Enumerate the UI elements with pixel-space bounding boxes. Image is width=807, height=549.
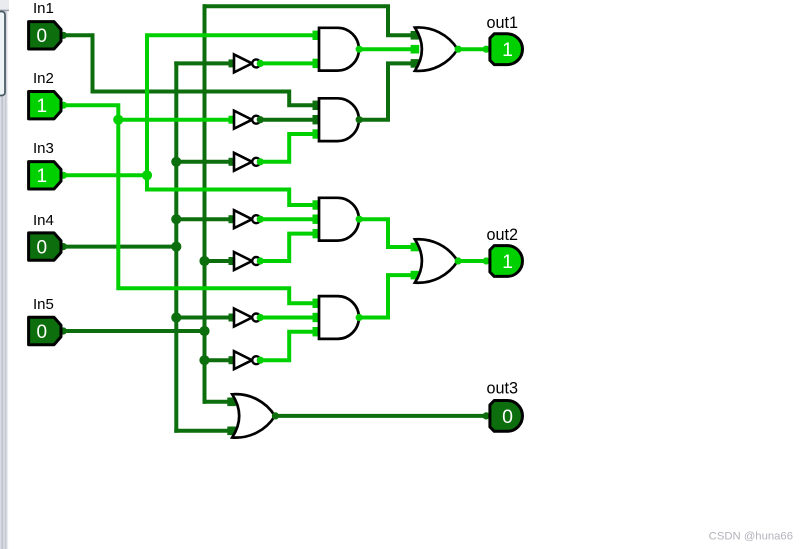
OR gate OR1 xyxy=(415,27,458,70)
inverter N2 output port xyxy=(257,116,264,123)
In4 pin port nub xyxy=(60,243,67,250)
AND gate AND1 xyxy=(319,28,359,71)
AND gate AND2 xyxy=(319,98,359,141)
svg-text:1: 1 xyxy=(37,166,48,187)
wire top run In5 bus to OR1 feed xyxy=(205,6,415,35)
wire inverter N3 output to AND2 input 3 xyxy=(260,134,319,162)
wire In5 pin to In5 bus xyxy=(60,329,205,333)
input pin In2 xyxy=(29,92,61,119)
AND gate AND4 xyxy=(319,296,359,339)
inverter N4 xyxy=(234,210,260,228)
svg-text:1: 1 xyxy=(502,251,513,273)
OR2 input 2 port xyxy=(411,271,420,280)
inverter N6 output port xyxy=(257,314,264,321)
svg-text:In5: In5 xyxy=(33,296,54,313)
AND3 input 3 port xyxy=(313,229,322,238)
wire inverter N2 output to AND2 input 2 xyxy=(260,118,319,122)
wire In2 bus to inverter N2 input xyxy=(118,118,228,122)
In3 pin port nub xyxy=(60,172,67,179)
wire AND3 output to OR2 input 1 xyxy=(359,219,415,247)
AND2 output port xyxy=(356,116,363,123)
junction In4 bus / N4 feed xyxy=(171,214,181,224)
inverter N5 input port xyxy=(229,257,237,265)
wire In4 pin to In4 bus xyxy=(60,245,176,249)
OR3 output port xyxy=(272,412,279,419)
OR gate OR2 xyxy=(415,239,458,282)
svg-text:CSDN @huna66: CSDN @huna66 xyxy=(709,531,793,543)
wire In3 pin to In3 bus xyxy=(60,173,147,177)
svg-text:out1: out1 xyxy=(487,14,519,32)
wire In4 bus to inverter N4 input xyxy=(176,217,228,221)
svg-text:1: 1 xyxy=(502,39,513,61)
svg-text:0: 0 xyxy=(502,406,513,428)
inverter N7 input port xyxy=(229,356,237,364)
output pin out3 xyxy=(490,401,523,432)
In2 pin port nub xyxy=(60,102,67,109)
out2 pin port nub xyxy=(483,257,490,264)
In1 pin port nub xyxy=(60,32,67,39)
inverter N4 output port xyxy=(257,216,264,223)
wire AND1 output to OR1 input 2 xyxy=(359,47,415,51)
AND3 input 2 port xyxy=(313,215,322,224)
inverter N2 xyxy=(234,111,260,129)
svg-text:In4: In4 xyxy=(33,212,54,229)
AND2 input 2 port xyxy=(313,115,322,124)
AND1 output port xyxy=(356,46,363,53)
In5 pin port nub xyxy=(60,327,67,334)
output pin out2 xyxy=(490,246,523,277)
inverter N7 xyxy=(234,351,260,369)
wire In5 vertical bus xyxy=(203,6,207,402)
inverter N5 xyxy=(234,252,260,270)
inverter N2 input port xyxy=(229,116,237,124)
inverter N1 input port xyxy=(229,59,237,67)
junction In5 bus / N7 feed xyxy=(199,355,209,365)
wire inverter N6 output to AND4 input 2 xyxy=(260,316,319,320)
inverter N6 xyxy=(234,309,260,327)
junction In2 bus / N2 feed xyxy=(113,115,123,125)
svg-text:1: 1 xyxy=(37,96,48,117)
inverter N1 output port xyxy=(257,60,264,67)
svg-text:out3: out3 xyxy=(487,380,519,398)
OR1 input 3 port xyxy=(411,59,420,68)
AND1 input 2 port xyxy=(313,59,322,68)
OR3 input 1 port xyxy=(227,398,236,407)
output pin out1 xyxy=(490,34,523,65)
inverter N3 xyxy=(234,153,260,171)
inverter N6 input port xyxy=(229,314,237,322)
inverter N3 input port xyxy=(229,158,237,166)
wire In1 pin to AND2 input 1 (net In1) xyxy=(60,35,319,105)
inverter N7 output port xyxy=(257,357,264,364)
wire OR3 output to out3 pin xyxy=(275,414,486,418)
wire In4 bus to inverter N6 input xyxy=(176,316,228,320)
wire In2 pin to AND4 input 1 (net In2) xyxy=(60,105,319,303)
svg-text:In2: In2 xyxy=(33,70,54,87)
OR2 input 1 port xyxy=(411,243,420,252)
inverter N5 output port xyxy=(257,257,264,264)
junction In4 bus / N6 feed xyxy=(171,312,181,322)
wire In4 vertical bus xyxy=(174,63,178,430)
wire In3 bus down to AND3 input 1 xyxy=(147,175,319,205)
input pin In4 xyxy=(29,233,61,260)
junction In4 bus / N3 feed xyxy=(171,157,181,167)
AND4 output port xyxy=(356,314,363,321)
wire In5 bus to OR3 input 1 xyxy=(205,400,232,404)
junction In4 bus / In4 pin entry xyxy=(171,242,181,252)
wire In4 bus to inverter N1 input xyxy=(176,61,228,65)
svg-text:In1: In1 xyxy=(33,0,54,17)
scrollbar track separator line xyxy=(0,9,9,11)
OR gate OR3 xyxy=(232,394,275,437)
OR2 output port xyxy=(455,257,462,264)
svg-text:out2: out2 xyxy=(487,226,519,244)
out1 pin port nub xyxy=(483,46,490,53)
AND gate AND3 xyxy=(319,198,359,241)
input pin In5 xyxy=(29,317,61,344)
left window edge strip xyxy=(0,0,9,549)
inverter N4 input port xyxy=(229,215,237,223)
scrollbar track top-left xyxy=(0,0,9,10)
AND2 input 3 port xyxy=(313,129,322,138)
OR3 input 2 port xyxy=(227,427,236,436)
input pin In1 xyxy=(29,22,61,49)
OR1 input 2 port xyxy=(411,45,420,54)
wire inverter N4 output to AND3 input 2 xyxy=(260,217,319,221)
wire inverter N1 output to AND1 input 2 xyxy=(260,61,319,65)
OR1 input 1 port xyxy=(411,31,420,40)
wire In4 bus to inverter N3 input xyxy=(176,160,228,164)
wire inverter N5 output to AND3 input 3 xyxy=(260,234,319,261)
AND3 input 1 port xyxy=(313,200,322,209)
wire AND4 output to OR2 input 2 xyxy=(359,275,415,317)
junction In5 bus / In5 pin entry xyxy=(199,326,209,336)
wire OR1 output to out1 pin xyxy=(458,47,486,51)
wire In5 bus to inverter N7 input xyxy=(205,358,229,362)
svg-text:0: 0 xyxy=(37,237,48,258)
AND1 input 1 port xyxy=(313,31,322,40)
scrollbar thumb xyxy=(0,12,5,96)
AND4 input 2 port xyxy=(313,313,322,322)
wire In4 bus to OR3 input 2 xyxy=(176,429,231,433)
wire AND2 output to OR1 input 3 xyxy=(359,63,415,119)
input pin In3 xyxy=(29,162,61,189)
AND2 input 1 port xyxy=(313,101,322,110)
out3 pin port nub xyxy=(483,412,490,419)
AND4 input 1 port xyxy=(313,299,322,308)
inverter N3 output port xyxy=(257,158,264,165)
svg-text:0: 0 xyxy=(37,322,48,343)
junction In5 bus / N5 feed xyxy=(199,256,209,266)
OR1 output port xyxy=(455,46,462,53)
wire In3 bus up to AND1 input 1 xyxy=(147,35,319,175)
wire OR2 output to out2 pin xyxy=(458,259,486,263)
svg-text:0: 0 xyxy=(37,26,48,47)
junction In3 bus split xyxy=(142,170,152,180)
wire inverter N7 output to AND4 input 3 xyxy=(260,332,319,361)
wire In5 bus to inverter N5 input xyxy=(205,259,229,263)
svg-text:In3: In3 xyxy=(33,140,54,157)
AND4 input 3 port xyxy=(313,327,322,336)
AND3 output port xyxy=(356,216,363,223)
inverter N1 xyxy=(234,54,260,72)
